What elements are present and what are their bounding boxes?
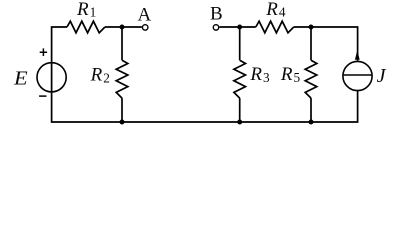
svg-text:E: E <box>13 68 28 90</box>
current source J circle <box>343 61 372 90</box>
wire R5 top lead <box>310 27 312 60</box>
svg-text:R2: R2 <box>90 65 110 86</box>
resistor R3 <box>234 60 246 98</box>
minus sign of E <box>39 95 46 97</box>
wire R2 top lead <box>121 27 123 60</box>
wire terminal B to R3 junction <box>219 26 255 28</box>
svg-text:A: A <box>138 4 152 25</box>
wire R3 top lead <box>239 27 241 60</box>
svg-text:J: J <box>377 65 387 87</box>
svg-text:R3: R3 <box>249 64 270 85</box>
wire R4 to top-right corner <box>294 27 358 61</box>
current source arrow <box>355 50 360 60</box>
wire R1 to terminal A <box>105 26 142 28</box>
svg-text:R4: R4 <box>265 0 286 20</box>
junction dot R5 bottom <box>309 120 314 125</box>
resistor R5 <box>305 60 317 98</box>
wire left rail + bottom rail + J lower lead <box>52 27 358 122</box>
node A terminal circle <box>142 25 148 31</box>
junction dot A <box>120 25 125 30</box>
plus sign of E <box>40 48 47 56</box>
svg-text:R1: R1 <box>76 0 96 20</box>
wire R5 bottom lead <box>310 98 312 122</box>
junction dot B-R3 <box>237 25 242 30</box>
wire R2 bottom lead <box>121 98 123 122</box>
svg-text:B: B <box>210 3 223 24</box>
voltage source E circle <box>37 63 66 92</box>
junction dot R3 bottom <box>237 120 242 125</box>
wire R3 bottom lead <box>239 98 241 122</box>
current source J chord <box>343 74 372 76</box>
svg-text:R5: R5 <box>280 64 301 85</box>
junction dot R2 bottom <box>120 120 125 125</box>
resistor R2 <box>116 60 128 98</box>
resistor R1 <box>67 21 105 33</box>
resistor R4 <box>256 21 294 33</box>
junction dot R4-R5 <box>309 25 314 30</box>
node B terminal circle <box>213 25 219 31</box>
